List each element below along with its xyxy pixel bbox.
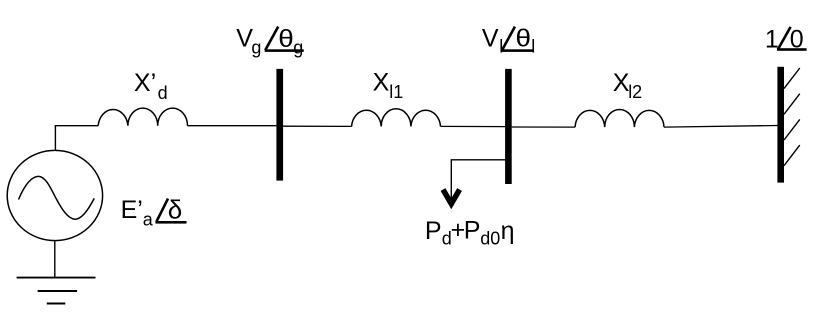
label Vl /θl <box>482 24 535 56</box>
wire bus Vg to inductor Xl1 <box>283 125 352 127</box>
wire Xl2 to infinite bus <box>664 126 777 128</box>
svg-text:l: l <box>531 36 535 56</box>
label Xl2 <box>613 69 642 102</box>
svg-text:η: η <box>501 217 515 245</box>
label E'a /δ <box>121 195 187 230</box>
inductor Xl1 <box>352 109 441 127</box>
wire from source bottom to ground <box>54 240 56 277</box>
svg-text:l1: l1 <box>389 82 403 102</box>
svg-text:X’: X’ <box>134 69 156 97</box>
svg-text:θ: θ <box>278 25 294 53</box>
infinite bus hatching <box>784 68 800 166</box>
bus Vg <box>276 69 283 181</box>
svg-text:1: 1 <box>765 25 779 53</box>
wire bus Vl to inductor Xl2 <box>512 126 575 128</box>
svg-text:θ: θ <box>516 25 532 53</box>
svg-text:δ: δ <box>168 195 182 225</box>
load arrow head <box>443 190 460 209</box>
svg-text:P: P <box>425 217 442 245</box>
AC source E'a (generator circle with sine) <box>7 150 102 240</box>
svg-text:P: P <box>464 217 481 245</box>
svg-text:V: V <box>482 24 499 52</box>
bus Vl <box>505 69 512 184</box>
label Vg /θg <box>236 25 303 58</box>
label Xl1 <box>373 69 404 102</box>
svg-text:g: g <box>293 37 303 57</box>
svg-text:g: g <box>251 37 261 57</box>
inductor X'd <box>98 108 187 126</box>
svg-text:d0: d0 <box>480 229 500 249</box>
svg-text:a: a <box>143 210 154 230</box>
svg-text:l2: l2 <box>628 82 642 102</box>
wire X'd to bus Vg <box>188 125 277 127</box>
load tap wire from bus Vl <box>451 160 508 202</box>
svg-text:E’: E’ <box>121 196 143 224</box>
label Pd+Pd0n <box>425 216 515 249</box>
svg-text:X: X <box>373 69 390 97</box>
infinite bus bar <box>777 67 784 183</box>
inductor Xl2 <box>575 109 664 127</box>
wire Xl1 to bus Vl <box>441 125 506 127</box>
ground <box>17 278 96 304</box>
wire from source top to main bus line <box>54 126 56 151</box>
label X'd <box>134 69 168 103</box>
svg-text:d: d <box>158 83 168 103</box>
wire source to inductor X'd <box>55 125 98 127</box>
label 1/0 <box>765 25 807 53</box>
